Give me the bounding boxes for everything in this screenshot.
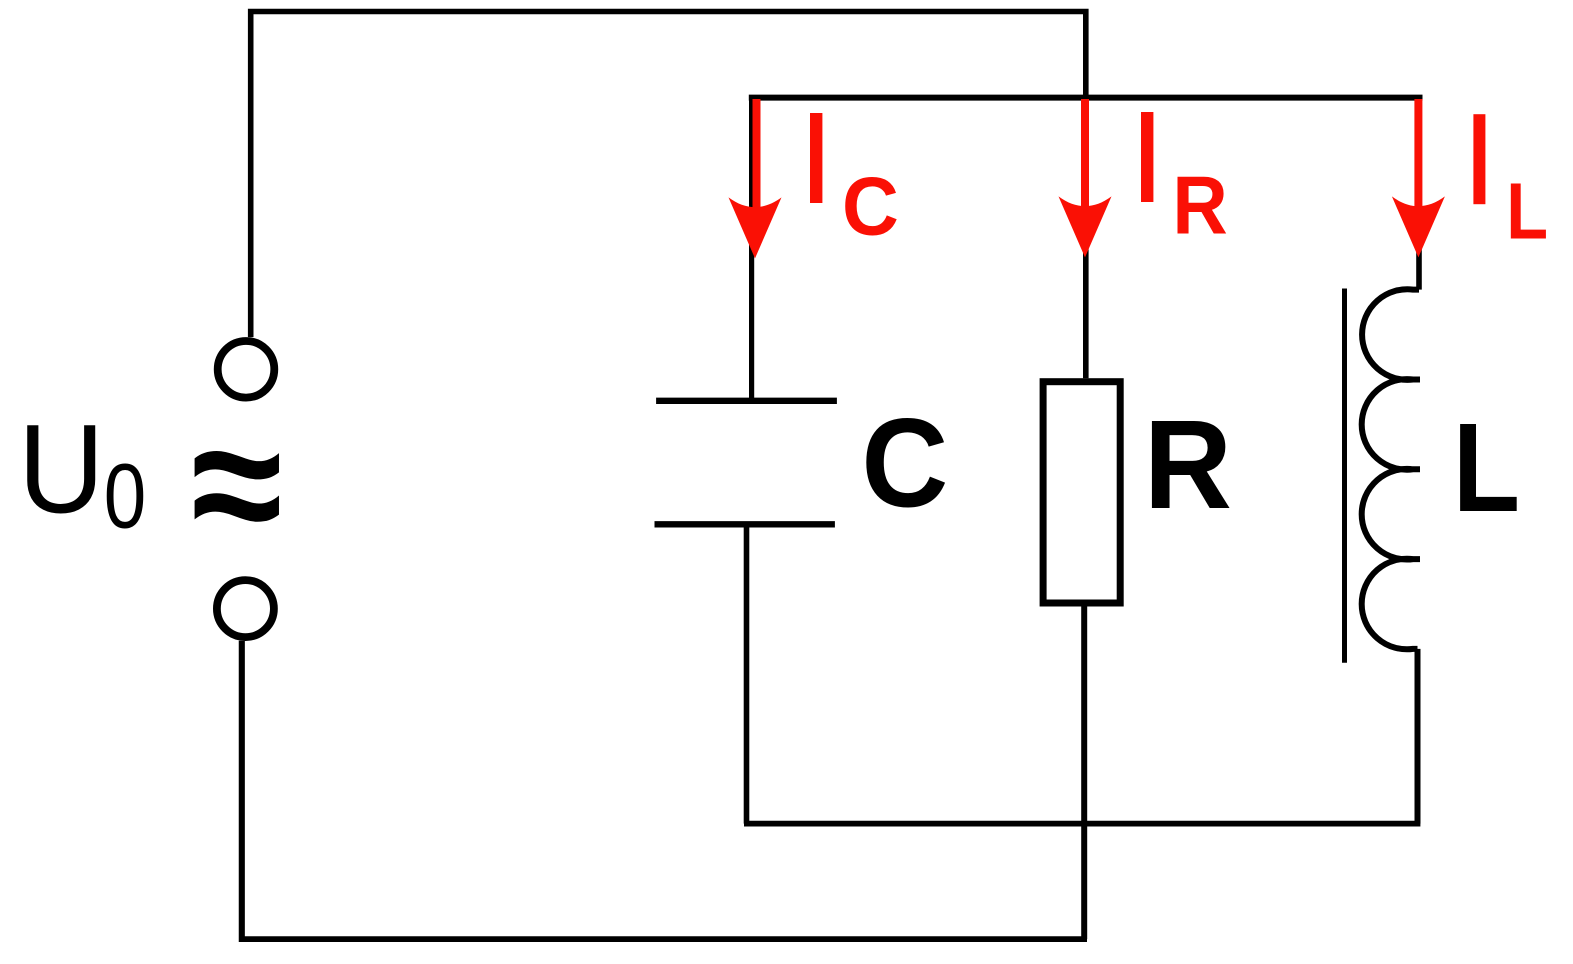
svg-text:C: C	[842, 161, 899, 253]
wire: bottom outer return wire with corner up to bottom terminal	[242, 641, 1087, 939]
capacitor C top plate	[656, 398, 837, 404]
source terminal top circle	[218, 341, 275, 398]
resistor R body	[1043, 382, 1120, 603]
svg-text:L: L	[1453, 398, 1520, 538]
svg-text:≈: ≈	[191, 383, 282, 584]
inductor L core bar	[1342, 289, 1347, 663]
svg-text:C: C	[861, 393, 948, 534]
svg-text:L: L	[1506, 167, 1548, 256]
wire: inner bottom rail	[744, 821, 1420, 827]
wire: inner top rail	[749, 95, 1423, 101]
svg-text:R: R	[1144, 395, 1232, 535]
wire: C branch upper	[749, 95, 754, 401]
wire: R branch upper	[1083, 98, 1089, 379]
label I_C	[810, 113, 822, 203]
capacitor C bottom plate	[655, 521, 835, 527]
current arrow IC	[753, 99, 761, 209]
inductor L coil (4 bumps)	[1362, 289, 1420, 649]
source terminal bottom circle	[217, 580, 274, 637]
current arrow IR	[1081, 99, 1089, 209]
label I_R	[1141, 112, 1153, 202]
wire: C branch lower	[744, 524, 750, 823]
svg-text:R: R	[1172, 159, 1227, 251]
label I_L	[1473, 114, 1485, 204]
current arrow IL	[1414, 99, 1422, 209]
wire: L branch upper	[1416, 98, 1422, 290]
svg-text:U: U	[18, 400, 104, 540]
wire: L branch lower	[1415, 649, 1421, 824]
wire: source top loop from top terminal up, across, down to inner rail	[251, 12, 1086, 338]
svg-text:0: 0	[104, 444, 146, 547]
wire: R branch lower through inner rail to outer bottom wire	[1081, 607, 1087, 940]
wire: source bottom stub	[239, 641, 245, 939]
